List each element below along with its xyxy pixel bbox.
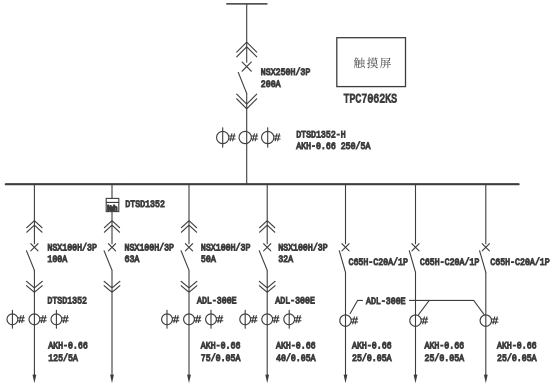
wire: feeder 4 outgoing [266,270,268,377]
svg-text:AKH-0.66: AKH-0.66 [48,342,88,353]
MCB contact cross x=345.5 [342,244,349,251]
feeder breaker blade x=189 [181,251,189,270]
svg-text:C65H-C20A/1P: C65H-C20A/1P [490,257,549,269]
CT secondary mark A (feeder x=34.4) [18,316,24,323]
main bus bar [6,183,519,185]
CT feeder 5 [340,315,351,326]
MCB blade x=485.8 [480,251,486,272]
svg-text:ADL-300E: ADL-300E [197,296,237,307]
feeder breaker drawout contacts (top) x=189 [181,221,196,233]
svg-text:AKH-0.66: AKH-0.66 [497,342,537,353]
touch screen box [337,38,406,87]
feeder breaker drawout contacts (bottom) x=34.4 [27,281,43,292]
wire: feeder 2 outgoing [111,270,113,377]
CT secondary mark (feeder 7) [492,317,498,324]
CT phase A (feeder x=267.2) [244,310,246,328]
MCB contact cross x=415.5 [412,244,419,251]
svg-text:NSX250H/3P: NSX250H/3P [261,67,311,79]
MCB blade x=415.5 [409,251,415,272]
feeder breaker blade x=267.2 [259,251,267,270]
CT secondary mark C (feeder x=189) [217,316,223,323]
svg-text:NSX100H/3P: NSX100H/3P [125,243,175,255]
svg-text:AKH-0.66: AKH-0.66 [425,342,465,353]
CT feeder 7 [480,315,491,326]
CT incoming phase C [267,128,269,147]
wire: bus to MCB (x=485.8) [485,184,487,244]
CT phase B (feeder x=267.2) [262,314,273,325]
CT secondary mark C (feeder x=34.4) [62,316,68,323]
svg-text:C65H-C20A/1P: C65H-C20A/1P [420,257,479,269]
svg-text:75/0.05A: 75/0.05A [201,353,241,365]
wire: bus to breaker (x=267.2) [266,184,268,244]
wire: bus to breaker (x=189) [188,184,190,244]
CT phase A (feeder x=189) [166,310,168,328]
svg-text:200A: 200A [261,80,281,91]
wire: feeder 5 outgoing [345,272,347,377]
wire: bus to MCB (x=345.5) [345,184,347,244]
wire: feeder 1 outgoing [33,270,35,377]
svg-text:25/0.05A: 25/0.05A [352,353,392,365]
svg-text:TPC7062KS: TPC7062KS [344,92,398,107]
svg-text:DTSD1352: DTSD1352 [125,200,165,211]
wire: feeder 7 outgoing [485,272,487,377]
svg-text:25/0.05A: 25/0.05A [425,353,465,365]
feeder 2 breaker NSX100H/3P 63A [111,212,113,244]
svg-text:ADL-300E: ADL-300E [275,296,315,307]
CT secondary mark A [229,134,235,141]
MCB blade x=345.5 [339,251,345,272]
CT phase C (feeder x=189) [210,310,212,328]
svg-text:NSX100H/3P: NSX100H/3P [278,243,328,255]
wire: breaker to bus [246,93,248,184]
wire: bus to MCB (x=415.5) [415,184,417,244]
touch screen label (Chinese) [354,57,391,68]
svg-text:AKH-0.66 250/5A: AKH-0.66 250/5A [296,141,370,153]
CT phase C (feeder x=267.2) [288,310,290,328]
wire: ADL-300E tap from CT feeder 5 [350,300,358,313]
feeder breaker drawout contacts (bottom) x=267.2 [259,281,275,292]
svg-text:NSX100H/3P: NSX100H/3P [201,243,251,255]
svg-text:63A: 63A [125,255,140,266]
wire: bus to breaker (x=34.4) [33,184,35,244]
svg-text:AKH-0.66: AKH-0.66 [201,342,241,353]
incoming breaker QF NSX250H/3P contact cross [242,62,251,71]
top supply bar [227,3,267,5]
feeder breaker contact cross x=189 [185,244,192,251]
CT feeder 6 [410,315,421,326]
CT secondary mark A (feeder x=267.2) [251,316,257,323]
CT secondary mark A (feeder x=189) [173,316,179,323]
svg-text:AKH-0.66: AKH-0.66 [352,342,392,353]
feeder breaker blade x=34.4 [27,251,35,270]
svg-text:125/5A: 125/5A [48,353,78,365]
CT incoming phase A [222,128,224,147]
feeder breaker drawout contacts (bottom) x=189 [181,281,197,292]
CT phase B (feeder x=34.4) [29,314,40,325]
CT phase C (feeder x=34.4) [55,310,57,328]
CT secondary mark C (feeder x=267.2) [295,316,301,323]
CT secondary mark B (feeder x=267.2) [273,316,279,323]
CT secondary mark (feeder 6) [422,317,428,324]
svg-text:NSX100H/3P: NSX100H/3P [47,243,97,255]
MCB contact cross x=485.8 [482,244,489,251]
svg-text:50A: 50A [201,255,216,266]
wire: ADL-300E tap to CT feeder 6 [419,300,430,314]
wire: supply to breaker [246,4,248,62]
svg-text:100A: 100A [47,255,67,266]
CT incoming phase B [239,131,251,143]
wire: feeder 3 outgoing [188,270,190,377]
feeder breaker contact cross x=267.2 [264,244,271,251]
CT secondary mark (feeder 5) [352,317,358,324]
svg-text:AKH-0.66: AKH-0.66 [276,342,316,353]
incoming breaker QF NSX250H/3P drawout contacts (top) [237,42,257,57]
incoming breaker QF NSX250H/3P drawout contacts (bottom) [237,94,257,109]
svg-text:32A: 32A [278,255,293,266]
CT secondary mark C [274,134,280,141]
svg-text:DTSD1352-H: DTSD1352-H [296,130,346,141]
svg-text:C65H-C20A/1P: C65H-C20A/1P [349,257,408,269]
CT secondary mark B (feeder x=34.4) [40,316,46,323]
wire: ADL-300E bus to feeders 6 and 7 [410,299,474,301]
CT phase A (feeder x=34.4) [11,310,13,328]
incoming breaker QF NSX250H/3P blade [238,72,246,93]
svg-text:DTSD1352: DTSD1352 [47,296,87,307]
feeder breaker contact cross x=34.4 [31,244,38,251]
wire: ADL-300E tap to CT feeder 7 [474,300,485,314]
svg-text:40/0.05A: 40/0.05A [276,353,316,365]
wire: bus to kWh meter (feeder 2) [111,184,113,198]
CT secondary mark B (feeder x=189) [195,316,201,323]
kWh meter box DTSD1352 (feeder 2) [106,198,119,211]
feeder breaker drawout contacts (top) x=267.2 [260,221,275,233]
svg-text:25/0.05A: 25/0.05A [497,353,537,365]
svg-text:ADL-300E: ADL-300E [366,297,406,308]
CT secondary mark B [252,134,258,141]
wire: feeder 6 outgoing [415,272,417,377]
feeder breaker drawout contacts (top) x=34.4 [27,221,42,233]
CT phase B (feeder x=189) [184,314,195,325]
